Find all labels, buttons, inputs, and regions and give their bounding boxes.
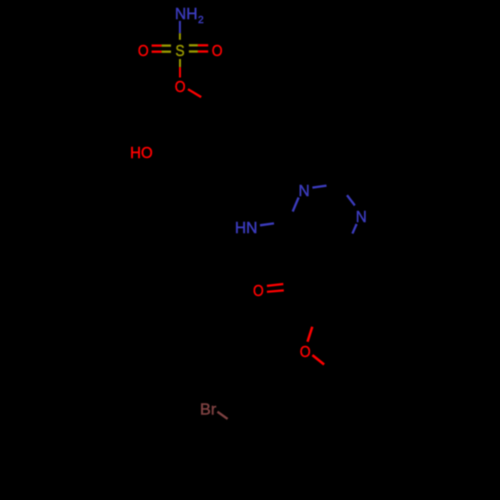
svg-text:S: S — [175, 43, 184, 60]
svg-text:O: O — [253, 283, 264, 300]
svg-text:HN: HN — [235, 220, 258, 237]
svg-text:Br: Br — [200, 402, 217, 419]
svg-text:NH: NH — [175, 6, 198, 23]
svg-text:O: O — [212, 43, 223, 60]
svg-text:O: O — [300, 344, 311, 361]
svg-text:HO: HO — [130, 145, 153, 162]
svg-text:O: O — [175, 79, 186, 96]
svg-text:O: O — [138, 43, 149, 60]
svg-text:2: 2 — [198, 15, 204, 26]
svg-text:N: N — [299, 183, 310, 200]
svg-text:N: N — [356, 209, 367, 226]
